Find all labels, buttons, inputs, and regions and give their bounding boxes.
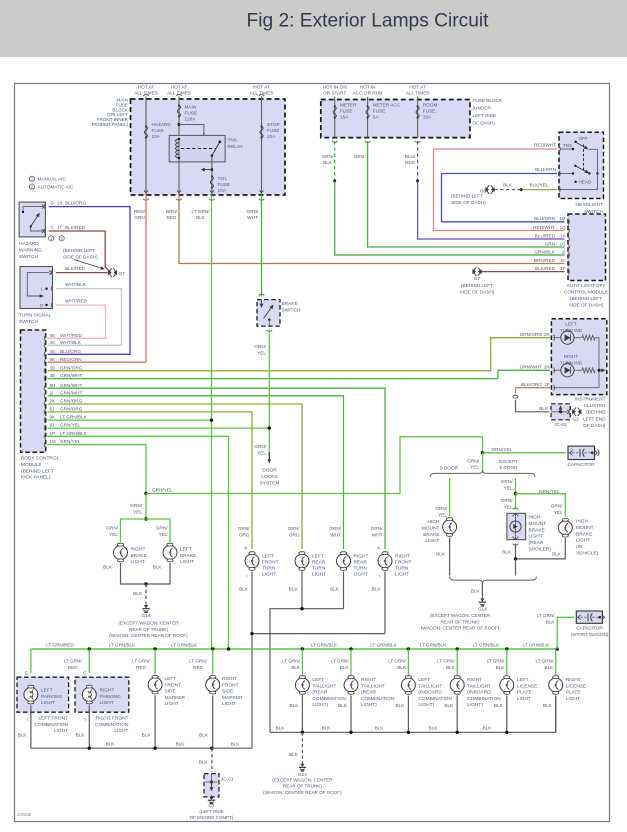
svg-text:LEFT: LEFT	[312, 677, 324, 683]
svg-text:ROOM: ROOM	[423, 103, 438, 108]
svg-text:8H: 8H	[50, 383, 56, 388]
svg-text:VEHICLE): VEHICLE)	[576, 551, 599, 557]
svg-text:LT GRN/BLK: LT GRN/BLK	[370, 642, 397, 647]
svg-text:(REAR: (REAR	[529, 540, 544, 546]
svg-text:2R: 2R	[544, 332, 550, 337]
fuse STOP wire column	[261, 97, 263, 196]
wire main fuse column	[178, 97, 180, 140]
svg-text:BLK: BLK	[153, 565, 163, 570]
connector JC-02 right	[569, 409, 570, 415]
svg-text:YEL: YEL	[109, 532, 118, 537]
wire GRN/ORG 6J to left front turn light	[48, 412, 253, 549]
svg-text:(WAGON: CENTER REAR OF ROOF): (WAGON: CENTER REAR OF ROOF)	[421, 626, 500, 631]
node bus junction x=89.3	[88, 647, 91, 650]
svg-text:METER ACC: METER ACC	[373, 103, 401, 108]
svg-text:FUSE: FUSE	[152, 128, 165, 133]
svg-text:BLK: BLK	[429, 726, 439, 731]
hazard switch blade node	[30, 225, 32, 227]
wire GRN/ORG 2K to left rear turn light	[48, 404, 303, 549]
svg-text:YEL: YEL	[257, 450, 266, 455]
lamp LEFT TAILLIGHT (INBOARD COMBINATION LIGHT)	[407, 675, 409, 680]
svg-text:COMBINATION: COMBINATION	[35, 722, 69, 728]
svg-text:SWITCH: SWITCH	[19, 319, 38, 325]
svg-text:GRN/BLK: GRN/BLK	[534, 249, 555, 254]
svg-text:8J: 8J	[50, 423, 55, 428]
svg-text:BLK: BLK	[330, 587, 340, 592]
svg-text:RED: RED	[167, 215, 178, 220]
svg-text:WHT/RED: WHT/RED	[60, 333, 82, 338]
wire BLK right rear turn down	[343, 572, 345, 609]
svg-text:RIGHT: RIGHT	[564, 354, 579, 359]
wire cluster common right	[553, 338, 599, 388]
legend circled 2 AUTOMATIC A/C	[29, 184, 34, 189]
svg-text:PLATE: PLATE	[566, 690, 581, 696]
wire BLK right marker down	[212, 696, 214, 749]
svg-text:BLK: BLK	[76, 733, 86, 738]
connector RED/WHT pin	[559, 146, 560, 152]
svg-text:GRN/WHT: GRN/WHT	[520, 364, 543, 369]
BCM pin 2K connector	[44, 401, 45, 407]
svg-text:FUSE BLOCK: FUSE BLOCK	[473, 98, 504, 103]
hazard warning switch box	[19, 202, 45, 237]
svg-text:BLU/ORG: BLU/ORG	[60, 349, 81, 354]
svg-text:MOUNT: MOUNT	[422, 525, 440, 531]
connector cluster pin 2N	[553, 368, 554, 374]
node BLK taillight bus x=457.2	[456, 731, 459, 734]
svg-text:HAZARD: HAZARD	[19, 241, 39, 247]
svg-text:BLK: BLK	[545, 665, 555, 670]
wire GRN/BLK from meter fuse (dashed part)	[334, 141, 336, 181]
ground G14 (taillights)	[301, 762, 303, 765]
connector at main fuse block bottom x=179	[177, 190, 181, 192]
svg-text:JC-02: JC-02	[554, 422, 567, 427]
svg-text:BLK/RED: BLK/RED	[65, 266, 86, 271]
wire BLK below LEFT TAILLIGHT	[407, 696, 409, 733]
svg-text:LIGHT: LIGHT	[312, 572, 326, 578]
wire BLK below LEFT TAILLIGHT	[301, 696, 303, 733]
node relay pivot	[211, 155, 214, 158]
svg-text:G: G	[25, 671, 29, 676]
node GRN/BLK splice	[333, 180, 336, 183]
node BLU/RED splice	[416, 180, 419, 183]
JC-02 out chevron	[567, 410, 569, 414]
svg-text:GRN/YEL: GRN/YEL	[492, 447, 513, 452]
svg-text:RED: RED	[68, 665, 78, 670]
svg-text:BLK: BLK	[199, 733, 209, 738]
ground G2	[572, 409, 576, 414]
svg-text:BLK: BLK	[133, 591, 143, 596]
svg-text:2F: 2F	[544, 382, 549, 387]
connector at main fuse block bottom x=211.9	[210, 190, 214, 192]
relay TNS RELAY box	[169, 135, 225, 162]
wire room fuse column	[417, 97, 419, 138]
svg-text:BLU/GRN: BLU/GRN	[534, 216, 555, 221]
svg-text:5 DOOR: 5 DOOR	[500, 465, 519, 470]
arrow branch to other circuit	[205, 169, 212, 171]
svg-text:BRAKE: BRAKE	[423, 532, 439, 538]
svg-text:MAIN: MAIN	[185, 105, 197, 110]
wire LT GRN/BLK 1P to parking bus	[48, 436, 229, 649]
svg-text:LT GRN/BLK: LT GRN/BLK	[171, 642, 198, 647]
svg-text:HIGH: HIGH	[576, 519, 589, 525]
svg-text:BLU/GRN: BLU/GRN	[535, 167, 556, 172]
ground G6	[485, 187, 489, 192]
svg-text:FUSE: FUSE	[185, 111, 198, 116]
node branch main fuse to relay contact	[178, 123, 181, 126]
svg-text:FUSE: FUSE	[267, 128, 280, 133]
svg-text:LT GRN/BLK: LT GRN/BLK	[523, 642, 550, 647]
svg-text:BRN/: BRN/	[166, 209, 178, 214]
wire BLK dashed to G14	[145, 584, 147, 603]
svg-text:FUSE: FUSE	[218, 182, 231, 187]
svg-text:BLK: BLK	[552, 552, 562, 557]
ground G1	[211, 795, 213, 798]
node bus junction x=212.7	[211, 647, 214, 650]
BCM pin 2I connector	[44, 393, 45, 399]
wire drop to left marker light	[154, 649, 156, 675]
svg-text:OF DASH): OF DASH)	[583, 423, 606, 428]
svg-text:LEFT: LEFT	[312, 554, 324, 560]
svg-text:1X: 1X	[57, 200, 63, 205]
wire GRN/WHT 3B to cluster 2N	[48, 370, 551, 378]
node BLK taillight bus x=506.8	[505, 731, 508, 734]
lamp RIGHT LICENSE PLATE LIGHT	[555, 675, 557, 680]
relay switch blade	[212, 142, 220, 156]
BCM pin 8J connector	[44, 425, 45, 431]
svg-text:LIGHT): LIGHT)	[361, 702, 377, 708]
svg-text:RIGHT FRONT: RIGHT FRONT	[96, 716, 129, 722]
svg-text:MODULE: MODULE	[21, 462, 42, 468]
svg-text:LICENSE: LICENSE	[566, 683, 587, 689]
svg-text:LIGHT: LIGHT	[354, 572, 368, 578]
wire BLK dashed to G14 taillights	[301, 732, 303, 762]
svg-text:4E: 4E	[50, 333, 55, 338]
svg-text:RIGHT: RIGHT	[467, 677, 482, 683]
wire switch common right side	[589, 149, 598, 173]
headlight switch mechanical link (dashed)	[583, 145, 585, 171]
left parking light (dashed box)	[17, 677, 69, 712]
wire GRN/ORG 3D to cluster 2R	[48, 338, 551, 371]
module pin 1Q connector	[568, 228, 569, 234]
svg-text:METER: METER	[340, 103, 357, 108]
svg-text:BRAKE: BRAKE	[282, 301, 298, 307]
svg-text:CONTROL MODULE: CONTROL MODULE	[564, 290, 608, 295]
JC-01 internal	[211, 774, 213, 790]
svg-text:(INBOARD: (INBOARD	[418, 690, 442, 696]
lamp LEFT PARKING LIGHT	[30, 685, 32, 690]
svg-text:BLK: BLK	[543, 703, 553, 708]
svg-text:RIGHT: RIGHT	[222, 676, 237, 682]
svg-text:G7: G7	[119, 271, 126, 276]
node HEAD contact	[574, 181, 576, 183]
svg-text:240288: 240288	[17, 812, 32, 817]
svg-text:TNS: TNS	[563, 143, 572, 148]
svg-text:10A: 10A	[218, 188, 227, 193]
svg-text:8K: 8K	[50, 357, 55, 362]
svg-text:BLK: BLK	[444, 703, 454, 708]
svg-text:GRN/: GRN/	[254, 344, 266, 349]
node BLK/YEL-BLK splice	[520, 188, 523, 191]
node lower contact	[572, 172, 574, 174]
svg-text:SIDE: SIDE	[165, 689, 176, 695]
svg-text:(BEHIND: (BEHIND	[586, 410, 606, 415]
svg-text:RED: RED	[193, 665, 203, 670]
capacitor sport wagon symbol	[576, 616, 586, 618]
svg-text:K: K	[244, 546, 247, 551]
node GRN/YEL except junction	[514, 492, 517, 495]
svg-text:LIGHT: LIGHT	[566, 696, 580, 702]
header bar	[0, 0, 627, 57]
svg-text:GRN/WHT: GRN/WHT	[60, 383, 83, 388]
svg-text:LEFT END: LEFT END	[583, 416, 606, 421]
ground G7 (left)	[108, 270, 112, 275]
svg-text:BLK: BLK	[496, 665, 506, 670]
module pin 1A connector	[568, 236, 569, 242]
headlight switch internal: lower lead	[560, 173, 573, 175]
svg-text:COMBINATION: COMBINATION	[95, 722, 129, 728]
wire GRN/WHT stop fuse to brake switch	[261, 195, 263, 296]
svg-text:SIDE OF DASH): SIDE OF DASH)	[451, 200, 486, 205]
svg-text:BLK: BLK	[231, 742, 241, 747]
svg-text:REAR OF TRUNK): REAR OF TRUNK)	[129, 627, 168, 632]
wire RED/WHT headlight switch to module pin 1Q	[434, 149, 565, 231]
svg-text:GRN/: GRN/	[130, 503, 142, 508]
svg-text:GRN/ORG: GRN/ORG	[60, 407, 83, 412]
fuse ROOM FUSE 15A	[416, 107, 419, 118]
svg-text:I: I	[379, 574, 380, 579]
node relay output branch	[211, 168, 214, 171]
svg-text:(REAR: (REAR	[312, 690, 327, 696]
wire LT GRN bus (parking/tail)	[31, 648, 557, 650]
wire BLK dashed to G6	[494, 189, 521, 191]
svg-text:LIGHT): LIGHT)	[467, 702, 483, 708]
node blade lower start	[574, 165, 576, 167]
node GRN/YEL junction at 8J	[268, 426, 271, 429]
svg-text:SIDE OF DASH): SIDE OF DASH)	[63, 254, 98, 259]
svg-text:LIGHT: LIGHT	[395, 572, 409, 578]
node 9K joins tail wire	[210, 418, 213, 421]
svg-text:(EXCEPT WAGON: CENTER: (EXCEPT WAGON: CENTER	[272, 778, 333, 783]
svg-text:1I: 1I	[562, 249, 566, 254]
wire BLK below RIGHT TAILLIGHT	[350, 696, 352, 733]
svg-text:GRN/ORG: GRN/ORG	[520, 332, 543, 337]
svg-text:CLUSTER: CLUSTER	[584, 403, 606, 408]
svg-text:TURN: TURN	[262, 566, 276, 572]
connector at main fuse block bottom x=146	[144, 190, 148, 192]
node front turn BLK junction	[250, 632, 253, 635]
BCM pin 1M connector	[44, 442, 45, 448]
svg-text:REAR OF TRUNK): REAR OF TRUNK)	[441, 619, 480, 624]
annotation arrow to G7	[74, 260, 101, 268]
svg-text:(REAR: (REAR	[361, 690, 376, 696]
svg-text:TURN SIGNAL: TURN SIGNAL	[19, 313, 52, 319]
svg-text:BLK: BLK	[483, 726, 493, 731]
svg-text:GRN/: GRN/	[329, 526, 341, 531]
node OFF contact	[574, 141, 576, 143]
svg-text:LIGHT: LIGHT	[114, 728, 128, 734]
node bus junction x=408.4	[407, 647, 410, 650]
main fuse block (dashed box)	[131, 99, 286, 195]
lamp RIGHT BRAKE LIGHT	[120, 543, 122, 548]
svg-text:GRN/: GRN/	[288, 526, 300, 531]
svg-text:LT GRN/BLK: LT GRN/BLK	[473, 642, 500, 647]
wire WHT/RED turn R to BCM 4E	[48, 305, 106, 338]
JC-02 internal	[551, 411, 568, 413]
svg-text:RED/GRN: RED/GRN	[60, 357, 82, 362]
svg-text:LT GRN/: LT GRN/	[64, 659, 82, 664]
wire BLK right parking down	[88, 706, 90, 749]
svg-text:2K: 2K	[50, 399, 55, 404]
connector cluster pin 2R	[553, 335, 554, 341]
svg-text:LIGHT: LIGHT	[529, 534, 543, 540]
svg-text:FRONT: FRONT	[222, 682, 239, 688]
svg-text:(LEFT SIDE: (LEFT SIDE	[199, 809, 223, 814]
svg-text:GRN/YEL: GRN/YEL	[539, 489, 560, 494]
svg-text:HOT AT: HOT AT	[138, 85, 155, 90]
ground G7 (right)	[472, 269, 476, 274]
svg-text:FRONT: FRONT	[165, 682, 182, 688]
wire BLK dashed to JC-01	[211, 748, 213, 772]
svg-text:15A: 15A	[423, 115, 432, 120]
svg-text:120A: 120A	[185, 117, 197, 122]
svg-text:GRN/ORG: GRN/ORG	[60, 365, 83, 370]
headlight switch blade lower	[575, 166, 585, 171]
svg-text:BLK: BLK	[289, 752, 299, 757]
svg-text:HOT AT: HOT AT	[253, 85, 270, 90]
wire BLK merge to G14	[481, 583, 483, 596]
svg-text:RIGHT: RIGHT	[361, 677, 376, 683]
svg-text:SIDE: SIDE	[222, 689, 233, 695]
svg-text:BLK: BLK	[502, 550, 512, 555]
inline connector	[513, 397, 519, 398]
svg-text:RED: RED	[136, 665, 146, 670]
svg-text:1C: 1C	[560, 258, 566, 263]
svg-text:CAPACITOR: CAPACITOR	[568, 462, 596, 467]
svg-text:(WAGON: CENTER REAR OF ROOF): (WAGON: CENTER REAR OF ROOF)	[109, 633, 188, 638]
wire GRN/YEL brake switch down	[268, 330, 270, 456]
svg-text:WHT: WHT	[247, 215, 258, 220]
connector capacitor left	[568, 450, 569, 456]
svg-text:BLK/ORG: BLK/ORG	[521, 382, 542, 387]
wire GRN/YEL to in-vehicle light	[516, 494, 566, 517]
svg-text:LT GRN/BLK: LT GRN/BLK	[420, 642, 447, 647]
svg-text:BLK: BLK	[539, 406, 549, 411]
wire BLK spoiler down	[515, 544, 517, 559]
svg-text:OR START: OR START	[323, 91, 346, 96]
connector at main fuse block top x=261.5	[259, 95, 265, 96]
svg-text:MANUAL A/C: MANUAL A/C	[38, 177, 67, 182]
headlight switch (dashed box)	[559, 132, 604, 198]
svg-text:HOT AT: HOT AT	[171, 85, 188, 90]
svg-text:L: L	[41, 287, 44, 292]
node cluster common	[598, 369, 601, 372]
svg-text:ACC OR RUN: ACC OR RUN	[353, 91, 383, 96]
wire relay output	[211, 156, 213, 195]
wire BLK left front turn down	[251, 572, 253, 634]
lamp LEFT REAR TURN LIGHT	[301, 551, 303, 556]
wire BLK right front turn down	[384, 572, 386, 634]
wire BLK front turn bus	[252, 634, 385, 749]
connector hazard pin C	[44, 228, 45, 234]
svg-text:BLK: BLK	[340, 665, 350, 670]
svg-text:TURN: TURN	[312, 566, 326, 572]
svg-text:I: I	[27, 717, 28, 722]
svg-text:FUSE: FUSE	[423, 109, 436, 114]
LED right turn indicator	[553, 369, 561, 371]
wire LT GRN/BLK drop to LEFT TAILLIGHT	[301, 649, 303, 675]
svg-text:HEAD: HEAD	[579, 180, 592, 185]
LED left turn indicator	[553, 337, 561, 339]
svg-text:SYSTEM: SYSTEM	[260, 480, 280, 486]
node bus junction x=351	[349, 647, 352, 650]
svg-text:2N: 2N	[544, 364, 550, 369]
svg-text:3D: 3D	[50, 365, 56, 370]
fuse METER ACC FUSE 5A	[366, 107, 369, 118]
svg-text:GRN/YEL: GRN/YEL	[152, 488, 173, 493]
svg-text:20A: 20A	[267, 134, 276, 139]
svg-text:BLK: BLK	[338, 703, 348, 708]
svg-text:G: G	[83, 671, 87, 676]
BCM pin 6J connector	[44, 409, 45, 415]
ground G14 (high mount)	[481, 597, 483, 600]
svg-text:GRN/: GRN/	[322, 154, 334, 159]
wire GRN/WHT 2I to right rear turn light	[48, 396, 344, 549]
BCM pin 3D connector	[44, 368, 45, 374]
node coil bottom	[178, 157, 180, 159]
svg-text:YEL: YEL	[438, 512, 447, 517]
module pin 1C connector	[568, 261, 569, 267]
svg-text:(EXCEPT WAGON: CENTER: (EXCEPT WAGON: CENTER	[430, 613, 491, 618]
node high mount BLK junction	[514, 557, 517, 560]
svg-text:9K: 9K	[50, 415, 55, 420]
brace merge 5-door	[450, 577, 537, 584]
svg-text:BLK: BLK	[436, 552, 446, 557]
svg-text:TAILLIGHT: TAILLIGHT	[418, 683, 442, 689]
svg-text:MARKER: MARKER	[222, 695, 243, 701]
wire BLK bus to front turn ground run	[212, 747, 252, 749]
connector turn signal L pin	[51, 286, 52, 292]
svg-text:LOCKS: LOCKS	[261, 474, 277, 480]
fuse STOP FUSE 20A	[260, 127, 263, 138]
svg-text:LEFT: LEFT	[418, 677, 430, 683]
svg-text:YEL: YEL	[504, 485, 513, 490]
turn signal pin top chevron	[49, 271, 51, 275]
svg-text:AUTO LIGHT-OFF: AUTO LIGHT-OFF	[567, 283, 606, 288]
svg-text:LIGHT: LIGHT	[54, 728, 68, 734]
brake switch internal out stub	[268, 320, 270, 326]
svg-text:GRN/WHT: GRN/WHT	[60, 390, 83, 395]
wire BLK left parking down	[31, 706, 212, 749]
svg-text:BLK: BLK	[196, 215, 206, 220]
turn signal internal common	[27, 273, 49, 296]
svg-text:RIGHT: RIGHT	[131, 547, 146, 553]
svg-text:TAIL: TAIL	[218, 176, 228, 181]
svg-text:LT GRN/: LT GRN/	[191, 209, 210, 214]
svg-text:LIGHT: LIGHT	[425, 538, 439, 544]
relay coil	[176, 139, 179, 158]
svg-text:GRN/: GRN/	[501, 479, 513, 484]
fuse MAIN FUSE 120A	[177, 106, 180, 117]
svg-text:PARKING: PARKING	[100, 694, 122, 700]
svg-text:LIGHT: LIGHT	[100, 700, 114, 706]
hazard switch internal top node	[22, 211, 24, 213]
wire GRN/YEL to spoiler light	[515, 494, 517, 510]
svg-text:G1: G1	[208, 803, 215, 808]
wire BLK/RED turn signal to G7	[56, 272, 108, 274]
svg-text:BLK: BLK	[494, 703, 504, 708]
wire LT GRN/BLK drop to RIGHT TAILLIGHT	[456, 649, 458, 675]
wire BLK taillight bus	[270, 696, 556, 733]
